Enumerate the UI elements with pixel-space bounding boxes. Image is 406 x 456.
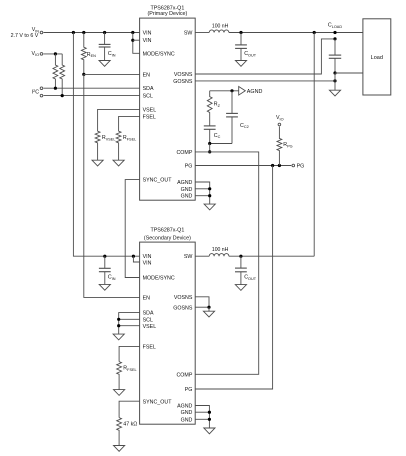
wire GND stub a primary xyxy=(195,188,210,190)
svg-text:GOSNS: GOSNS xyxy=(173,79,193,85)
junction GOSNS / load return xyxy=(333,79,336,82)
wire secondary SDA tie xyxy=(119,313,140,335)
wire secondary inductor to riser xyxy=(229,255,314,257)
svg-text:VSEL: VSEL xyxy=(143,324,157,330)
ground RVSEL xyxy=(92,160,103,166)
svg-text:TPS6287x-Q1: TPS6287x-Q1 xyxy=(150,228,184,234)
svg-text:REN: REN xyxy=(87,52,96,58)
svg-text:RZ: RZ xyxy=(214,102,221,108)
junction CLOAD / load bottom xyxy=(333,71,336,74)
IC U1 TPS6287x-Q1 primary device box xyxy=(140,18,196,200)
svg-text:PG: PG xyxy=(185,164,193,170)
svg-text:RFSEL: RFSEL xyxy=(123,135,136,141)
svg-text:MODE/SYNC: MODE/SYNC xyxy=(143,276,175,282)
resistor RVSEL xyxy=(95,131,100,160)
junction comp bottom xyxy=(208,142,211,145)
junction VIN jog / VIN pin2 xyxy=(131,39,134,42)
wire AGND stub primary xyxy=(195,182,210,204)
wire VIN pin2 stub xyxy=(133,39,140,41)
capacitor CIN primary xyxy=(104,33,106,45)
AGND flag xyxy=(239,87,246,96)
svg-text:(Primary Device): (Primary Device) xyxy=(148,11,188,17)
svg-text:CC: CC xyxy=(214,133,221,139)
svg-text:FSEL: FSEL xyxy=(143,114,156,120)
svg-text:I2C: I2C xyxy=(32,89,40,96)
svg-text:VOSNS: VOSNS xyxy=(174,72,193,78)
svg-text:VIO: VIO xyxy=(32,51,40,57)
svg-text:RPG: RPG xyxy=(283,142,292,148)
wire secondary GOSNS stub xyxy=(195,306,209,308)
junction GND a primary xyxy=(208,187,211,190)
svg-text:FSEL: FSEL xyxy=(143,345,156,351)
ground 47 kOhm xyxy=(114,446,125,452)
wire secondary output riser xyxy=(313,33,315,257)
svg-text:GND: GND xyxy=(181,410,193,416)
terminal VIO pullup PG xyxy=(278,123,281,126)
svg-text:AGND: AGND xyxy=(247,89,263,95)
junction GND b primary xyxy=(208,194,211,197)
capacitor CC xyxy=(209,125,211,127)
junction VIN rail / down rail xyxy=(72,31,75,34)
junction secondary VIN / CIN xyxy=(103,255,106,258)
junction COMP pin node xyxy=(208,150,211,153)
capacitor COUT secondary xyxy=(240,256,242,268)
resistor pullup SCL xyxy=(60,54,65,96)
wire secondary SYNC_OUT to R47k xyxy=(119,401,140,417)
wire GND stub b primary xyxy=(195,195,210,197)
svg-text:VIN: VIN xyxy=(143,38,152,44)
junction comp top / CC2 xyxy=(230,89,233,92)
junction VOUT / secondary riser xyxy=(313,31,316,34)
ground CIN secondary xyxy=(99,284,110,290)
junction secondary VSEL tie xyxy=(117,324,120,327)
svg-text:AGND: AGND xyxy=(177,404,192,410)
svg-text:SYNC_OUT: SYNC_OUT xyxy=(143,399,173,405)
wire secondary VSEL tie xyxy=(119,325,140,327)
junction EN node xyxy=(82,73,85,76)
wire VIN rail top xyxy=(44,32,140,34)
resistor pullup SDA xyxy=(53,54,58,88)
svg-text:SCL: SCL xyxy=(143,317,153,323)
ground RFSEL secondary xyxy=(114,390,125,396)
ground COUT secondary xyxy=(235,285,246,291)
svg-text:COMP: COMP xyxy=(176,372,192,378)
svg-text:EN: EN xyxy=(143,295,151,301)
ground primary GND pins xyxy=(204,204,215,210)
junction SCL / pullup xyxy=(61,94,64,97)
wire secondary SCL tie xyxy=(119,318,140,320)
wire load return xyxy=(335,72,363,74)
terminal I2C SCL xyxy=(40,94,43,97)
wire VIN down rail to secondary xyxy=(73,33,139,257)
junction secondary VOUT / COUT xyxy=(239,255,242,258)
svg-text:VSEL: VSEL xyxy=(143,107,157,113)
junction PG / RPG xyxy=(278,164,281,167)
wire SW to inductor xyxy=(195,32,209,34)
svg-text:VIN: VIN xyxy=(143,254,152,260)
terminal PG output xyxy=(292,164,295,167)
svg-text:GOSNS: GOSNS xyxy=(173,305,193,311)
wire secondary sense ground stem xyxy=(208,307,210,311)
capacitor CLOAD xyxy=(334,39,336,55)
junction VIO / pullup SDA xyxy=(54,52,57,55)
svg-text:CIN: CIN xyxy=(108,51,116,57)
wire comp to COMP pin xyxy=(209,144,211,152)
load box xyxy=(363,19,391,95)
svg-text:2.7 V to 6 V: 2.7 V to 6 V xyxy=(11,33,39,39)
wire FSEL to RFSEL xyxy=(119,116,140,131)
wire secondary FSEL to RFSEL xyxy=(119,346,140,361)
svg-text:GND: GND xyxy=(181,187,193,193)
svg-text:SCL: SCL xyxy=(143,94,153,100)
wire VIO to pullups xyxy=(44,53,63,55)
wire SYNC_OUT to secondary MODE/SYNC xyxy=(125,180,139,278)
junction VOSNS / CLOAD branch xyxy=(333,37,336,40)
svg-text:SYNC_OUT: SYNC_OUT xyxy=(143,178,173,184)
wire VSEL to RVSEL xyxy=(98,109,140,131)
ground secondary SDA/SCL/VSEL xyxy=(113,334,124,340)
wire compensation bottom rail xyxy=(210,143,232,145)
inductor L2 100 nH xyxy=(209,254,229,257)
svg-text:(Secondary Device): (Secondary Device) xyxy=(144,235,191,241)
resistor RFSEL primary xyxy=(116,131,121,160)
svg-text:47 kΩ: 47 kΩ xyxy=(123,422,137,428)
svg-text:100 nH: 100 nH xyxy=(212,23,229,29)
svg-text:RFSEL: RFSEL xyxy=(123,366,136,372)
svg-text:SDA: SDA xyxy=(143,86,154,92)
IC U2 TPS6287x-Q1 secondary device box xyxy=(140,242,196,424)
junction SDA / pullup xyxy=(54,87,57,90)
ground secondary GND pins xyxy=(204,428,215,434)
wire SDA line xyxy=(44,87,140,89)
svg-text:PG: PG xyxy=(297,164,305,170)
wire VIN pin jog xyxy=(133,33,140,54)
wire secondary GND stub a xyxy=(195,411,209,413)
terminal I2C SDA xyxy=(40,87,43,90)
capacitor CC2 xyxy=(231,91,233,114)
svg-text:CLOAD: CLOAD xyxy=(328,23,342,29)
terminal VIO input xyxy=(40,53,43,56)
svg-text:SW: SW xyxy=(184,30,193,36)
junction VOUT / CLOAD xyxy=(333,31,336,34)
wire secondary VOSNS tie xyxy=(195,297,209,307)
ground load return xyxy=(329,90,340,96)
inductor L1 100 nH xyxy=(209,30,229,33)
junction VIN rail / CIN xyxy=(103,31,106,34)
junction VIN rail / REN xyxy=(82,31,85,34)
svg-text:VOSNS: VOSNS xyxy=(174,295,193,301)
wire PG line xyxy=(195,165,291,167)
svg-text:GND: GND xyxy=(181,417,193,423)
ground COUT primary xyxy=(235,61,246,67)
ground secondary VOSNS/GOSNS xyxy=(203,311,214,317)
wire SCL line xyxy=(44,95,140,97)
svg-text:CC2: CC2 xyxy=(240,123,249,129)
junction VIN rail / VIN pin jog xyxy=(131,31,134,34)
junction secondary GOSNS xyxy=(207,306,210,309)
svg-text:EN: EN xyxy=(143,72,151,78)
wire compensation top rail xyxy=(210,90,239,92)
svg-text:CIN: CIN xyxy=(108,275,116,281)
wire secondary VIN pin jog xyxy=(133,256,139,262)
wire secondary AGND stub xyxy=(195,406,209,429)
ground RFSEL primary xyxy=(113,160,124,166)
svg-text:COUT: COUT xyxy=(244,51,257,57)
terminal VIN input xyxy=(40,31,43,34)
svg-text:100 nH: 100 nH xyxy=(212,247,229,253)
wire secondary GND stub b xyxy=(195,418,209,420)
svg-text:VIN: VIN xyxy=(143,30,152,36)
svg-text:VIN: VIN xyxy=(143,260,152,266)
junction secondary SCL tie xyxy=(117,318,120,321)
svg-text:MODE/SYNC: MODE/SYNC xyxy=(143,51,175,57)
wire EN down rail to secondary xyxy=(84,74,140,297)
junction secondary GND b xyxy=(208,418,211,421)
capacitor CIN secondary xyxy=(104,256,106,268)
ground CIN primary xyxy=(99,61,110,67)
junction PG / secondary route xyxy=(271,164,274,167)
svg-text:PG: PG xyxy=(185,387,193,393)
wire CLOAD to ground xyxy=(334,73,336,90)
svg-text:AGND: AGND xyxy=(177,180,192,186)
capacitor COUT primary xyxy=(240,33,242,45)
wire inductor to load rail xyxy=(229,32,363,34)
wire PG route to secondary xyxy=(195,166,272,390)
wire COMP route to secondary xyxy=(195,152,259,374)
resistor RZ xyxy=(207,91,212,126)
wire GOSNS sense xyxy=(195,80,335,82)
resistor 47 kOhm xyxy=(117,418,122,446)
svg-text:RVSEL: RVSEL xyxy=(102,135,116,141)
resistor RPG xyxy=(277,127,282,166)
svg-text:COUT: COUT xyxy=(244,275,257,281)
resistor RFSEL secondary xyxy=(117,362,122,390)
svg-text:COMP: COMP xyxy=(176,150,192,156)
svg-text:SW: SW xyxy=(184,254,193,260)
svg-text:VIO: VIO xyxy=(276,115,284,121)
junction secondary GND a xyxy=(208,411,211,414)
svg-text:SDA: SDA xyxy=(143,311,154,317)
wire secondary SW to inductor xyxy=(195,255,209,257)
wire EN to U1 xyxy=(84,73,140,75)
junction secondary VIN jog xyxy=(132,255,135,258)
svg-text:Load: Load xyxy=(371,55,383,61)
resistor REN xyxy=(81,33,86,75)
svg-text:GND: GND xyxy=(181,194,193,200)
wire VOSNS sense xyxy=(195,39,335,74)
junction VOUT / COUT xyxy=(239,31,242,34)
